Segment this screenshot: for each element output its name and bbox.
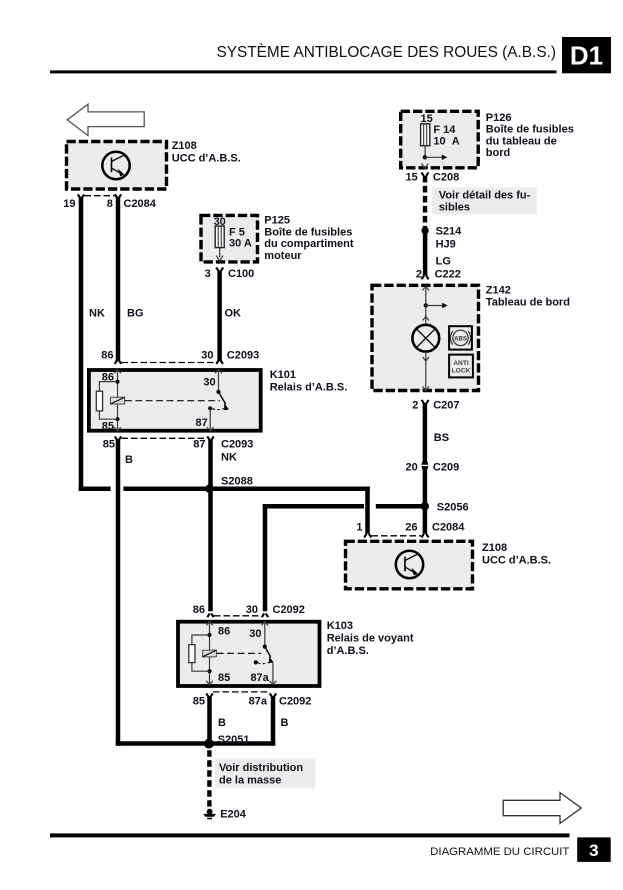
svg-text:K103: K103: [327, 620, 353, 632]
svg-text:C2084: C2084: [124, 198, 157, 210]
connector C209 (pin 20): [406, 461, 460, 474]
svg-text:85: 85: [193, 695, 205, 707]
svg-text:C2092: C2092: [279, 695, 311, 707]
svg-text:NK: NK: [221, 452, 237, 464]
svg-text:S214: S214: [436, 226, 463, 238]
Z142 internal wire: [423, 286, 448, 324]
svg-text:C2093: C2093: [227, 350, 259, 362]
splice S2051 bottom line: [116, 734, 276, 749]
svg-text:19: 19: [63, 198, 75, 210]
svg-text:20: 20: [406, 461, 418, 473]
svg-text:2: 2: [412, 399, 418, 411]
transistor symbol U1: [102, 152, 129, 179]
K103 coil: [203, 650, 261, 657]
svg-text:P126: P126: [486, 112, 512, 124]
connector C208 (pin 15): [405, 172, 459, 184]
svg-text:C100: C100: [228, 268, 254, 280]
svg-text:3: 3: [205, 268, 211, 280]
header underline: [50, 70, 557, 73]
svg-text:S2088: S2088: [221, 475, 253, 487]
svg-text:Z108: Z108: [482, 542, 507, 554]
svg-text:8: 8: [107, 198, 113, 210]
svg-text:B: B: [281, 717, 289, 729]
Z142 internal wire below lamp: [423, 352, 429, 391]
wire LG HJ9: [423, 230, 428, 276]
splice S2056: [421, 502, 429, 510]
svg-text:86: 86: [218, 625, 230, 637]
fuse F14 10A: [420, 113, 459, 169]
svg-text:C2092: C2092: [273, 604, 305, 616]
svg-text:85: 85: [102, 420, 114, 432]
svg-text:B: B: [218, 717, 226, 729]
nav arrow right: [503, 793, 581, 824]
svg-text:S2051: S2051: [218, 734, 250, 746]
connector C2092 row below K103 (pins 85,87a): [193, 692, 312, 707]
wire B (K103-87a down): [271, 697, 276, 746]
note box: Voir detail des fusibles: [432, 187, 537, 214]
splice line to S2056: [263, 504, 423, 611]
svg-text:30: 30: [246, 604, 258, 616]
wire BG (Z108-8 to K101-86): [116, 198, 121, 361]
svg-text:Z142: Z142: [486, 285, 511, 297]
K103 resistor: [189, 645, 195, 663]
svg-text:DIAGRAMME DU CIRCUIT: DIAGRAMME DU CIRCUIT: [430, 846, 569, 858]
svg-text:85: 85: [103, 438, 115, 450]
svg-text:LOCK: LOCK: [452, 368, 471, 375]
svg-text:3: 3: [589, 841, 598, 860]
ANTI LOCK telltale: [449, 355, 473, 378]
svg-text:d’A.B.S.: d’A.B.S.: [327, 645, 369, 657]
svg-text:C222: C222: [435, 268, 461, 280]
svg-text:C2093: C2093: [221, 438, 253, 450]
svg-text:P125: P125: [264, 215, 290, 227]
svg-text:C2084: C2084: [432, 521, 465, 533]
module P126 fuse box: [401, 111, 574, 168]
wire to Z108 pin 1: [365, 486, 370, 533]
warning lamp: [412, 325, 439, 352]
wire NK (K101-87 to S2088 to K103-86): [208, 440, 213, 612]
svg-text:D1: D1: [570, 41, 603, 71]
wire OK (P125-3 to K101-30): [217, 271, 222, 361]
connector C2093 row above K101 (pins 86,30): [101, 350, 259, 364]
svg-text:Relais de voyant: Relais de voyant: [327, 633, 414, 645]
wire B (K103-85 down): [207, 697, 212, 744]
svg-text:15: 15: [405, 172, 417, 184]
svg-text:C207: C207: [433, 399, 459, 411]
page number tab: [577, 837, 611, 862]
fuse F5 30A: [205, 216, 255, 280]
wire NK (Z108-19 down): [79, 198, 84, 491]
svg-text:moteur: moteur: [264, 250, 302, 262]
K103 switch (pin 30 to 87a): [249, 622, 276, 685]
connector C2092 row above K103 (pins 86,30): [193, 604, 305, 617]
svg-text:UCC d’A.B.S.: UCC d’A.B.S.: [172, 153, 241, 165]
svg-text:ABS: ABS: [454, 335, 467, 342]
svg-text:1: 1: [356, 521, 362, 533]
svg-text:87: 87: [196, 417, 208, 429]
svg-text:E204: E204: [220, 808, 247, 820]
svg-text:Boîte de fusibles: Boîte de fusibles: [486, 124, 574, 136]
svg-text:BG: BG: [127, 308, 144, 320]
footer rule: [50, 833, 570, 837]
svg-text:C208: C208: [433, 172, 459, 184]
K103 coil branch (pin 86 to 85): [192, 622, 230, 685]
svg-text:30: 30: [201, 350, 213, 362]
svg-text:85: 85: [218, 672, 230, 684]
module Z108 UCC d'A.B.S. (bottom): [346, 541, 552, 589]
svg-text:OK: OK: [225, 308, 242, 320]
dashed ground wire: [207, 750, 211, 806]
svg-text:87a: 87a: [249, 695, 268, 707]
svg-text:86: 86: [101, 350, 113, 362]
svg-text:B: B: [125, 454, 133, 466]
wire BS (C209 to Z108-26): [423, 470, 428, 534]
svg-text:du tableau de: du tableau de: [486, 135, 557, 147]
svg-text:K101: K101: [270, 369, 296, 381]
svg-text:HJ9: HJ9: [436, 239, 456, 251]
svg-text:10 A: 10 A: [433, 135, 459, 147]
module Z108 UCC d'A.B.S. (top): [67, 140, 241, 189]
page tab D1: [562, 37, 611, 73]
svg-text:Boîte de fusibles: Boîte de fusibles: [264, 226, 352, 238]
svg-text:du compartiment: du compartiment: [264, 238, 354, 250]
nav arrow left: [67, 104, 144, 135]
K101 coil branch (pin 86 to 85): [99, 369, 120, 432]
splice S214: [421, 227, 428, 234]
dashed wire (see fuse detail): [423, 176, 427, 228]
K101 resistor: [96, 391, 102, 411]
ABS telltale icon: [449, 326, 472, 349]
connector C2093 row below K101 (pins 85,87): [103, 436, 254, 450]
connector C2084 row (pins 19,8): [63, 194, 157, 210]
splice line S2088: [79, 475, 370, 493]
svg-text:SYSTÈME ANTIBLOCAGE DES ROUES: SYSTÈME ANTIBLOCAGE DES ROUES (A.B.S.): [216, 44, 556, 61]
svg-text:UCC d’A.B.S.: UCC d’A.B.S.: [482, 554, 551, 566]
svg-text:F 14: F 14: [433, 124, 456, 136]
ground E204: [203, 808, 246, 820]
svg-text:de la masse: de la masse: [219, 774, 281, 786]
svg-text:sibles: sibles: [439, 201, 470, 213]
svg-text:30: 30: [249, 628, 261, 640]
svg-text:C209: C209: [433, 461, 459, 473]
svg-text:Relais d’A.B.S.: Relais d’A.B.S.: [270, 381, 348, 393]
svg-text:86: 86: [193, 604, 205, 616]
connector C207 (pin 2): [412, 399, 459, 411]
note box: Voir distribution de la masse: [215, 759, 315, 789]
svg-text:87: 87: [193, 438, 205, 450]
wire BS (C207 to C209): [423, 403, 428, 461]
svg-text:BS: BS: [434, 432, 449, 444]
module Z142 Tableau de bord: [372, 285, 570, 391]
svg-text:Voir distribution: Voir distribution: [219, 762, 303, 774]
svg-text:30: 30: [203, 376, 215, 388]
connector C222 (pin 2): [416, 268, 461, 280]
svg-text:ANTI: ANTI: [453, 360, 469, 367]
transistor symbol U2: [396, 551, 423, 578]
connector C2084 row (pins 1,26) above Z108: [356, 521, 465, 537]
K101 switch (pin 30 to 87): [196, 369, 229, 431]
K101 coil: [110, 397, 220, 404]
svg-text:NK: NK: [89, 308, 105, 320]
relay K101 Relais d'A.B.S.: [89, 369, 347, 431]
svg-text:87a: 87a: [250, 672, 269, 684]
svg-text:S2056: S2056: [437, 502, 469, 514]
svg-text:26: 26: [405, 521, 417, 533]
module P125 fuse box: [201, 215, 354, 262]
svg-text:LG: LG: [436, 256, 451, 268]
svg-text:Tableau de bord: Tableau de bord: [486, 296, 570, 308]
wire B (K101-85 down): [116, 440, 121, 746]
svg-text:30 A: 30 A: [229, 237, 252, 249]
svg-text:Voir détail des fu-: Voir détail des fu-: [439, 189, 531, 201]
relay K103 Relais de voyant d'A.B.S.: [178, 620, 414, 686]
svg-text:Z108: Z108: [172, 140, 197, 152]
svg-text:bord: bord: [486, 147, 510, 159]
